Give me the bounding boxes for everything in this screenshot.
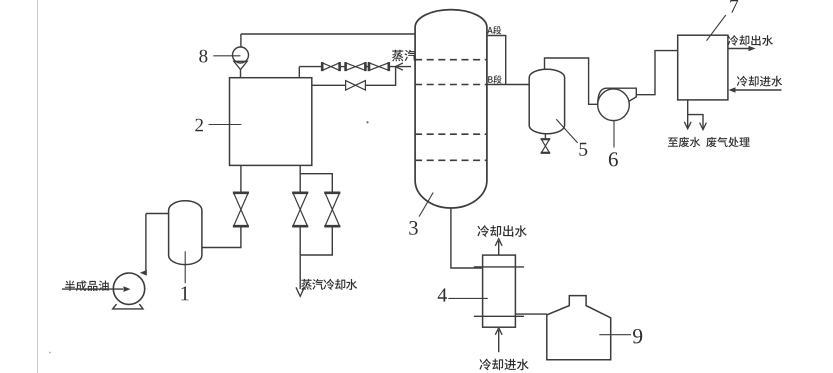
faint page border line (37, 0, 39, 373)
label 6 (609, 152, 618, 166)
label 7 (730, 0, 738, 13)
stem box2 to valve V5 (240, 165, 242, 192)
leader line for label 6 (613, 121, 615, 148)
label 蒸汽 (steam) (392, 50, 416, 62)
tank 9 (collection tank) (547, 296, 611, 360)
label 冷却进水 below condenser 4 (479, 359, 528, 371)
tray dashed line 1 (415, 59, 487, 61)
label 冷却出水 above condenser 4 (477, 225, 526, 237)
overhead line from device 8 to column top (241, 33, 415, 35)
vessel 5 overhead line to blower (545, 58, 598, 104)
device 8 circle (funnel feeder) (233, 47, 249, 63)
vessel 5 drain valve V8 (541, 138, 551, 140)
branch to valve V7 (300, 174, 332, 193)
vessel 5 drain stem (544, 134, 546, 140)
section A outlet line (487, 36, 506, 85)
label 冷却进水 (cooling water in) top (737, 76, 783, 87)
cooling water inlet arrow of condenser 7 (734, 89, 782, 91)
leader line for label 4 (448, 297, 487, 299)
steam main line (299, 66, 411, 68)
leader line for label 3 (419, 193, 433, 217)
leader line for label 2 (209, 124, 242, 126)
leader line for label 5 (556, 119, 577, 143)
riser from device 8 (240, 34, 242, 47)
bypass valve V4 (bowtie) (346, 81, 366, 90)
stray speck (366, 121, 368, 123)
stem box2 to valve V6 (299, 165, 301, 192)
condensate line to tank 9 (515, 313, 547, 315)
pump base stand (113, 304, 143, 309)
label 3 (409, 221, 417, 235)
label A段 (section A) (487, 26, 501, 34)
vessel 2 (reactor tank) (230, 78, 312, 166)
leader line for label 1 (184, 251, 186, 283)
column bottoms line to condenser 4 (451, 208, 483, 268)
tray dashed line 3 (415, 133, 487, 135)
condenser 4 lower tubesheet line (474, 315, 524, 317)
label 1 (181, 286, 188, 300)
label 2 (195, 119, 203, 132)
label 半成品油 (semi-finished oil) (65, 280, 109, 291)
leader line for label 8 (213, 55, 240, 57)
bypass line (312, 67, 396, 86)
steam valve V1 (321, 62, 324, 71)
leader line for label 7 (707, 15, 726, 41)
condenser 7 box (678, 35, 728, 100)
drain valve V6 (292, 192, 308, 195)
pipe below V6 with outflow arrow (299, 226, 301, 289)
label 9 (633, 329, 642, 343)
vessel 5 (separator drum) (529, 69, 564, 133)
pipe vessel1 to pump with arrow (142, 214, 146, 273)
pump P (semi-finished oil pump) circle (113, 273, 144, 304)
cooling water out arrow of condenser 4 (498, 241, 500, 255)
drop from steam line to vessel 2 (298, 67, 300, 78)
section B outlet line to vessel 5 (487, 84, 529, 86)
label 8 (199, 50, 207, 63)
waste outlet fork below condenser 7 (688, 100, 703, 128)
steam valve V3 (368, 62, 371, 71)
condenser 4 shell (483, 255, 516, 327)
cooling water in arrow of condenser 4 (498, 330, 500, 352)
label B段 (section B) (488, 75, 502, 83)
leader line for label 9 (599, 334, 631, 336)
blower outlet line to condenser 7 (636, 51, 677, 95)
tray dashed line 4 (415, 159, 487, 161)
label 至废水 废气处理 (to wastewater / waste gas treatment) (668, 137, 750, 147)
vessel 1 (buffer drum) (169, 201, 202, 265)
pipe vessel1 top left (146, 213, 169, 215)
pipe V5 down and to vessel 1 (202, 226, 241, 247)
cooling water outlet arrow of condenser 7 (728, 48, 751, 50)
blower 6 scroll casing (598, 88, 637, 105)
label 5 (579, 143, 587, 156)
stem device8 to box2 (240, 70, 242, 78)
device 8 funnel triangle (234, 61, 247, 69)
blower 6 (centrifugal fan) circle (598, 89, 630, 121)
pipe below V7 joining V6 line (300, 226, 332, 255)
condenser 4 upper tubesheet line (474, 266, 524, 268)
steam flow arrow (395, 63, 403, 70)
drain valve V7 (324, 192, 340, 195)
label 蒸汽冷却水 (steam cooling water) (301, 279, 357, 290)
steam valve V2 (344, 62, 347, 71)
tray dashed line 2 (415, 84, 487, 86)
column 3 (stripping tower) shell (415, 10, 487, 208)
label 冷却出水 (cooling water out) top (728, 35, 774, 46)
feed line with arrow into pump P (62, 288, 123, 290)
drain valve V5 (233, 192, 249, 195)
label 4 (438, 288, 447, 301)
